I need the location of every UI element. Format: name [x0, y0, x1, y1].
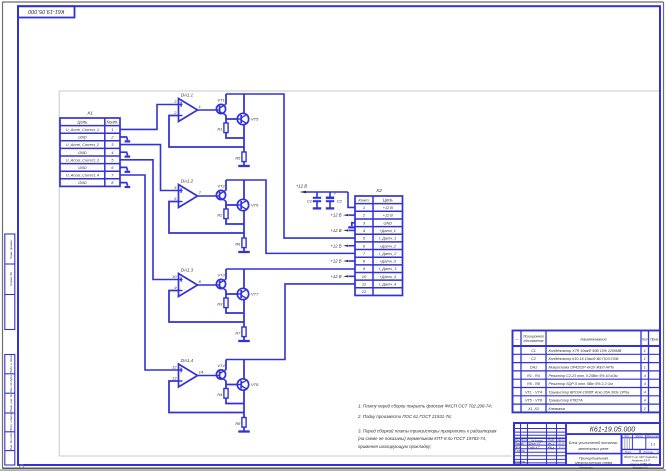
svg-text:VT8: VT8	[251, 382, 259, 387]
wire to VTb base	[226, 118, 237, 120]
svg-text:Листов: Листов	[642, 450, 653, 454]
svg-text:Позиционное: Позиционное	[523, 334, 544, 338]
svg-text:Пров.: Пров.	[515, 445, 522, 449]
wire op-amp output	[198, 195, 217, 197]
node +12V flag (X2 pin 4)	[330, 228, 355, 233]
svg-text:U_Accel_Correct_3: U_Accel_Correct_3	[66, 158, 100, 162]
op-amp DA1.3	[172, 268, 202, 297]
svg-text:электрическая схема: электрическая схема	[575, 461, 612, 465]
svg-text:Блок усилителей питания-: Блок усилителей питания-	[569, 441, 619, 445]
svg-text:GND: GND	[384, 221, 393, 225]
svg-text:10: 10	[172, 274, 177, 279]
wire Ra to emitter column	[226, 399, 244, 404]
svg-text:VT1: VT1	[217, 98, 224, 103]
svg-text:VT6: VT6	[251, 203, 259, 208]
svg-text:GND: GND	[78, 166, 87, 170]
svg-text:11: 11	[362, 282, 366, 287]
wire VT collector to rail	[224, 360, 227, 371]
svg-text:+12 В: +12 В	[330, 228, 341, 233]
resistor R4	[217, 389, 228, 399]
left margin stamp cells (upper group)	[5, 234, 15, 330]
svg-text:R7: R7	[235, 331, 241, 336]
wire VT emitter	[224, 115, 227, 123]
svg-text:C1: C1	[307, 198, 312, 203]
op-amp DA1.1	[173, 93, 201, 122]
svg-text:DA1.3: DA1.3	[181, 268, 194, 273]
svg-text:Группа КИВТ-19: Группа КИВТ-19	[630, 462, 651, 466]
svg-text:Принципиальная: Принципиальная	[579, 456, 608, 460]
svg-text:10.17: 10.17	[558, 444, 564, 446]
svg-text:12: 12	[172, 365, 177, 370]
svg-text:R3: R3	[217, 302, 223, 307]
node +12V flag (X2 pin 6)	[330, 243, 355, 248]
title block	[514, 423, 660, 466]
svg-text:Кол: Кол	[642, 337, 648, 341]
svg-text:+12 В: +12 В	[383, 214, 393, 218]
ground (R7 bottom)	[238, 340, 250, 342]
node +12V flag (X2 pin 8)	[330, 259, 355, 264]
svg-text:Лист: Лист	[624, 450, 633, 454]
wire VTb collector	[243, 360, 245, 380]
svg-text:X1, X2: X1, X2	[527, 407, 539, 411]
svg-text:Прим: Прим	[650, 337, 659, 341]
svg-text:Подп. и дата: Подп. и дата	[9, 355, 13, 373]
title block: name	[566, 441, 622, 465]
connector X2	[355, 188, 403, 295]
svg-text:+12 В: +12 В	[330, 274, 341, 279]
resistor R6	[235, 238, 246, 248]
wire VTb emitter column	[243, 299, 245, 327]
node +12V flag (X2 pin 10)	[330, 274, 355, 279]
wire feedback to inverting input	[169, 116, 244, 148]
svg-text:+12 В: +12 В	[383, 206, 393, 210]
wire VTb emitter column	[243, 390, 245, 418]
svg-text:R5: R5	[235, 156, 241, 161]
op-amp DA1.2	[174, 179, 201, 208]
ground (X1 pin 2)	[120, 137, 130, 141]
svg-text:1: 1	[644, 366, 646, 370]
svg-text:U_Accel_Correct_1: U_Accel_Correct_1	[66, 128, 99, 132]
title block: footer text	[579, 466, 648, 470]
ground (X1 pin 8)	[120, 183, 130, 187]
transistor VT7	[237, 288, 259, 299]
notes text	[357, 403, 496, 449]
svg-text:Клеммник: Клеммник	[549, 407, 566, 411]
svg-text:GND: GND	[78, 151, 87, 155]
svg-text:+12 В: +12 В	[330, 243, 341, 248]
op-amp DA1.4	[172, 358, 204, 387]
left margin stamp cells (lower group)	[5, 355, 15, 466]
wire op-amp output	[198, 109, 217, 111]
svg-text:+12 В: +12 В	[330, 213, 341, 218]
wire X2 pin1 to +12V rail	[348, 192, 355, 207]
svg-text:Копировал: Копировал	[579, 466, 593, 470]
svg-text:Дата: Дата	[557, 439, 565, 442]
ground (C1)	[313, 207, 322, 209]
wire collector rail to X2 pin 7	[226, 180, 355, 253]
wire VT emitter	[224, 380, 227, 388]
svg-text:DA1.1: DA1.1	[181, 93, 194, 98]
svg-text:+Датч_4: +Датч_4	[380, 275, 396, 279]
resistor R3	[217, 298, 228, 308]
svg-text:2. Пайку произвести ПОС 61 ГОС: 2. Пайку произвести ПОС 61 ГОСТ 21931-76…	[357, 414, 453, 419]
wire Rb to ground	[243, 428, 245, 432]
wire to VTb base	[226, 293, 237, 295]
ground (X1 pin 6)	[120, 167, 130, 171]
ground (X2 pin 3)	[348, 223, 355, 228]
wire VT collector to rail	[224, 269, 227, 280]
wire collector rail to X2 pin 9	[226, 268, 355, 270]
wire feedback to inverting input	[169, 202, 244, 234]
wire VTb collector	[243, 180, 245, 200]
wire collector rail to X2 pin 11	[226, 284, 355, 360]
svg-text:13: 13	[172, 376, 177, 381]
svg-text:VT4: VT4	[217, 363, 225, 368]
transistor VT6	[237, 199, 259, 210]
svg-text:U_Accel_Correct_2: U_Accel_Correct_2	[66, 143, 100, 147]
connector X1	[60, 110, 120, 186]
svg-text:I_Датч_3: I_Датч_3	[379, 267, 397, 271]
transistor VT4	[216, 363, 225, 380]
svg-text:+12 В: +12 В	[330, 259, 341, 264]
svg-text:Микросхема ОР4202Р 4хОУ ЖЕЛ НР: Микросхема ОР4202Р 4хОУ ЖЕЛ НРТк	[549, 366, 615, 370]
wire Rb to ground	[243, 248, 245, 252]
wire to VTb base	[226, 204, 237, 206]
svg-text:1:1: 1:1	[650, 443, 655, 447]
svg-text:+Датч_3: +Датч_3	[380, 260, 397, 264]
ground (R8 bottom)	[238, 430, 250, 432]
svg-text:обозначение: обозначение	[523, 339, 543, 343]
svg-text:Конт.: Конт.	[358, 197, 369, 202]
wire X1 pin 1 to op-amp input	[120, 105, 179, 130]
svg-text:DA1.4: DA1.4	[181, 358, 194, 363]
svg-text:применяя изолирующую прокладку: применяя изолирующую прокладку;	[358, 444, 432, 449]
wire Rb to ground	[243, 162, 245, 166]
parts list table	[513, 331, 661, 413]
svg-text:1: 1	[199, 104, 201, 109]
svg-text:+12 В: +12 В	[296, 184, 307, 189]
svg-text:Резистор SQP-5 отл. 5Вт 5% 2.2: Резистор SQP-5 отл. 5Вт 5% 2.2 Ом	[549, 382, 614, 386]
svg-text:VT1 - VT4: VT1 - VT4	[525, 390, 542, 394]
transistor VT8	[237, 379, 259, 390]
title block: lit/massa/masshtab	[622, 434, 661, 466]
svg-text:X2: X2	[375, 188, 382, 194]
svg-text:Подп. и дата: Подп. и дата	[9, 413, 13, 431]
transistor VT2	[216, 184, 225, 201]
svg-text:Взам. инв. №: Взам. инв. №	[9, 393, 13, 412]
wire VTb emitter column	[243, 124, 245, 152]
svg-text:1. Плату перед сборки покрыть: 1. Плату перед сборки покрыть флюсом ФКС…	[358, 403, 493, 408]
svg-text:GND: GND	[78, 181, 87, 185]
wire Ra to emitter column	[226, 133, 244, 138]
svg-text:1: 1	[111, 127, 113, 132]
svg-text:I_Датч_2: I_Датч_2	[379, 252, 397, 256]
svg-text:Т.контр.: Т.контр.	[515, 449, 526, 453]
svg-text:Перв. примен.: Перв. примен.	[9, 239, 13, 259]
svg-text:VT5 - VT8: VT5 - VT8	[525, 399, 543, 403]
svg-text:4: 4	[644, 399, 646, 403]
svg-text:Масштаб: Масштаб	[647, 435, 659, 438]
svg-text:R1: R1	[217, 127, 222, 132]
rotated designation box	[18, 6, 75, 17]
wire Ra to emitter column	[226, 219, 244, 224]
ground (X1 pin 4)	[120, 152, 130, 156]
transistor VT3	[216, 273, 225, 290]
svg-text:10: 10	[362, 274, 367, 279]
svg-text:Конт.: Конт.	[107, 119, 119, 124]
ground (R5 bottom)	[238, 165, 250, 167]
svg-text:C1: C1	[531, 349, 536, 353]
svg-text:Транзистор КТ827А: Транзистор КТ827А	[549, 399, 584, 403]
schematic picture border (grey)	[59, 91, 659, 456]
ground (R6 bottom)	[238, 251, 250, 253]
transistor VT5	[237, 113, 259, 124]
svg-text:1: 1	[644, 357, 646, 361]
svg-text:метеочных реле: метеочных реле	[578, 447, 608, 451]
svg-text:VT7: VT7	[251, 292, 259, 297]
svg-text:Цепь: Цепь	[77, 119, 87, 124]
wire VTb collector	[243, 94, 245, 114]
svg-text:X1: X1	[86, 110, 93, 116]
svg-text:1: 1	[363, 205, 365, 210]
svg-text:4: 4	[644, 382, 646, 386]
wire VTb collector	[243, 269, 245, 289]
resistor R1	[217, 123, 228, 133]
svg-text:VT2: VT2	[217, 184, 225, 189]
svg-text:Масса: Масса	[635, 435, 643, 438]
svg-text:4: 4	[644, 374, 646, 378]
wire X1 pin 7 to op-amp input	[120, 175, 179, 370]
svg-text:Транзистор ВРО34-16ПВТ Аско 26: Транзистор ВРО34-16ПВТ Аско 26А 363v ОРб…	[549, 390, 629, 394]
svg-text:Справ. №: Справ. №	[9, 271, 13, 285]
svg-text:I_Датч_4: I_Датч_4	[379, 283, 396, 287]
wire VT emitter	[224, 201, 227, 209]
wire VT collector to rail	[224, 94, 227, 105]
svg-text:R4: R4	[217, 392, 223, 397]
svg-text:Утв.: Утв.	[515, 462, 521, 466]
svg-text:12: 12	[362, 289, 367, 294]
wire Rb to ground	[243, 337, 245, 341]
resistor R5	[235, 152, 246, 162]
wire VT collector to rail	[224, 180, 227, 191]
capacitor C1	[307, 192, 321, 208]
node +12V rail	[296, 184, 348, 194]
svg-text:Лит.: Лит.	[623, 435, 630, 438]
title block: signatures	[548, 443, 565, 449]
resistor R8	[235, 418, 246, 428]
svg-text:К61-19.05.000: К61-19.05.000	[590, 427, 635, 434]
svg-text:DA1: DA1	[530, 366, 537, 370]
wire to VTb base	[226, 384, 237, 386]
svg-text:+Датч_1: +Датч_1	[380, 229, 396, 233]
svg-text:14: 14	[199, 369, 204, 374]
svg-text:3. Перед сборкой платы транзис: 3. Перед сборкой платы транзисторы прикр…	[358, 428, 496, 433]
svg-text:R8: R8	[235, 421, 241, 426]
svg-text:R1 - R4: R1 - R4	[527, 374, 540, 378]
wire collector rail to X2 pin 5	[226, 94, 355, 238]
wire X1 pin 5 to op-amp input	[120, 160, 179, 280]
svg-text:4: 4	[644, 390, 646, 394]
svg-text:GND: GND	[78, 136, 87, 140]
svg-text:R2: R2	[217, 213, 223, 218]
svg-text:C2: C2	[337, 198, 343, 203]
svg-text:Цепь: Цепь	[383, 197, 393, 202]
svg-text:Резистор С2-23 отл. 0.25Вт 5%: Резистор С2-23 отл. 0.25Вт 5% 10 кОм	[549, 374, 619, 378]
resistor R7	[235, 327, 246, 337]
svg-text:Конденсатор К10-16 10мкФ-В0 ПО: Конденсатор К10-16 10мкФ-В0 ПОЗ-ПХВ	[549, 357, 620, 361]
svg-text:VT3: VT3	[217, 273, 225, 278]
ground (C2)	[326, 207, 335, 209]
title block: document number	[566, 427, 660, 435]
svg-text:10.17: 10.17	[558, 447, 564, 449]
svg-text:Габб А.Т.: Габб А.Т.	[529, 445, 541, 449]
svg-text:R6: R6	[235, 242, 241, 247]
svg-text:U_Accel_Correct_4: U_Accel_Correct_4	[66, 174, 99, 178]
wire VT emitter	[224, 290, 227, 298]
svg-text:Разраб.: Разраб.	[515, 442, 525, 446]
svg-text:Подп.: Подп.	[548, 438, 555, 442]
wire feedback to inverting input	[169, 291, 244, 323]
svg-text:C2: C2	[531, 357, 536, 361]
wire feedback to inverting input	[169, 381, 244, 413]
svg-text:1: 1	[644, 349, 646, 353]
svg-text:Инв. № дубл.: Инв. № дубл.	[9, 374, 13, 392]
svg-text:I_Датч_1: I_Датч_1	[379, 237, 396, 241]
resistor R2	[217, 209, 228, 219]
svg-text:Инв. № подл.: Инв. № подл.	[9, 432, 13, 450]
capacitor C2	[326, 191, 343, 207]
svg-text:R5 - R8: R5 - R8	[527, 382, 541, 386]
svg-text:Наименование: Наименование	[580, 337, 606, 341]
svg-text:VT5: VT5	[251, 117, 259, 122]
transistor VT1	[216, 98, 225, 115]
wire VTb emitter column	[243, 210, 245, 238]
svg-text:2: 2	[643, 407, 646, 411]
scan mark	[19, 464, 24, 468]
wire op-amp output	[198, 375, 217, 377]
svg-text:(на схеме не показаны) гермети: (на схеме не показаны) герметиком КПТ-8 …	[358, 436, 486, 441]
svg-text:К61-19.05.000: К61-19.05.000	[27, 8, 64, 14]
wire Ra to emitter column	[226, 308, 244, 313]
svg-text:+Датч_2: +Датч_2	[380, 244, 397, 248]
node +12V flag (X2 pin 2)	[330, 213, 355, 218]
svg-text:DA1.2: DA1.2	[181, 179, 194, 184]
svg-text:Формат А3: Формат А3	[633, 466, 648, 470]
wire op-amp output	[198, 284, 217, 286]
svg-text:Конденсатор X7R 10мкФ 50В 10%: Конденсатор X7R 10мкФ 50В 10% 1206МВ	[549, 349, 622, 353]
wire X1 pin 3 to op-amp input	[120, 145, 179, 191]
